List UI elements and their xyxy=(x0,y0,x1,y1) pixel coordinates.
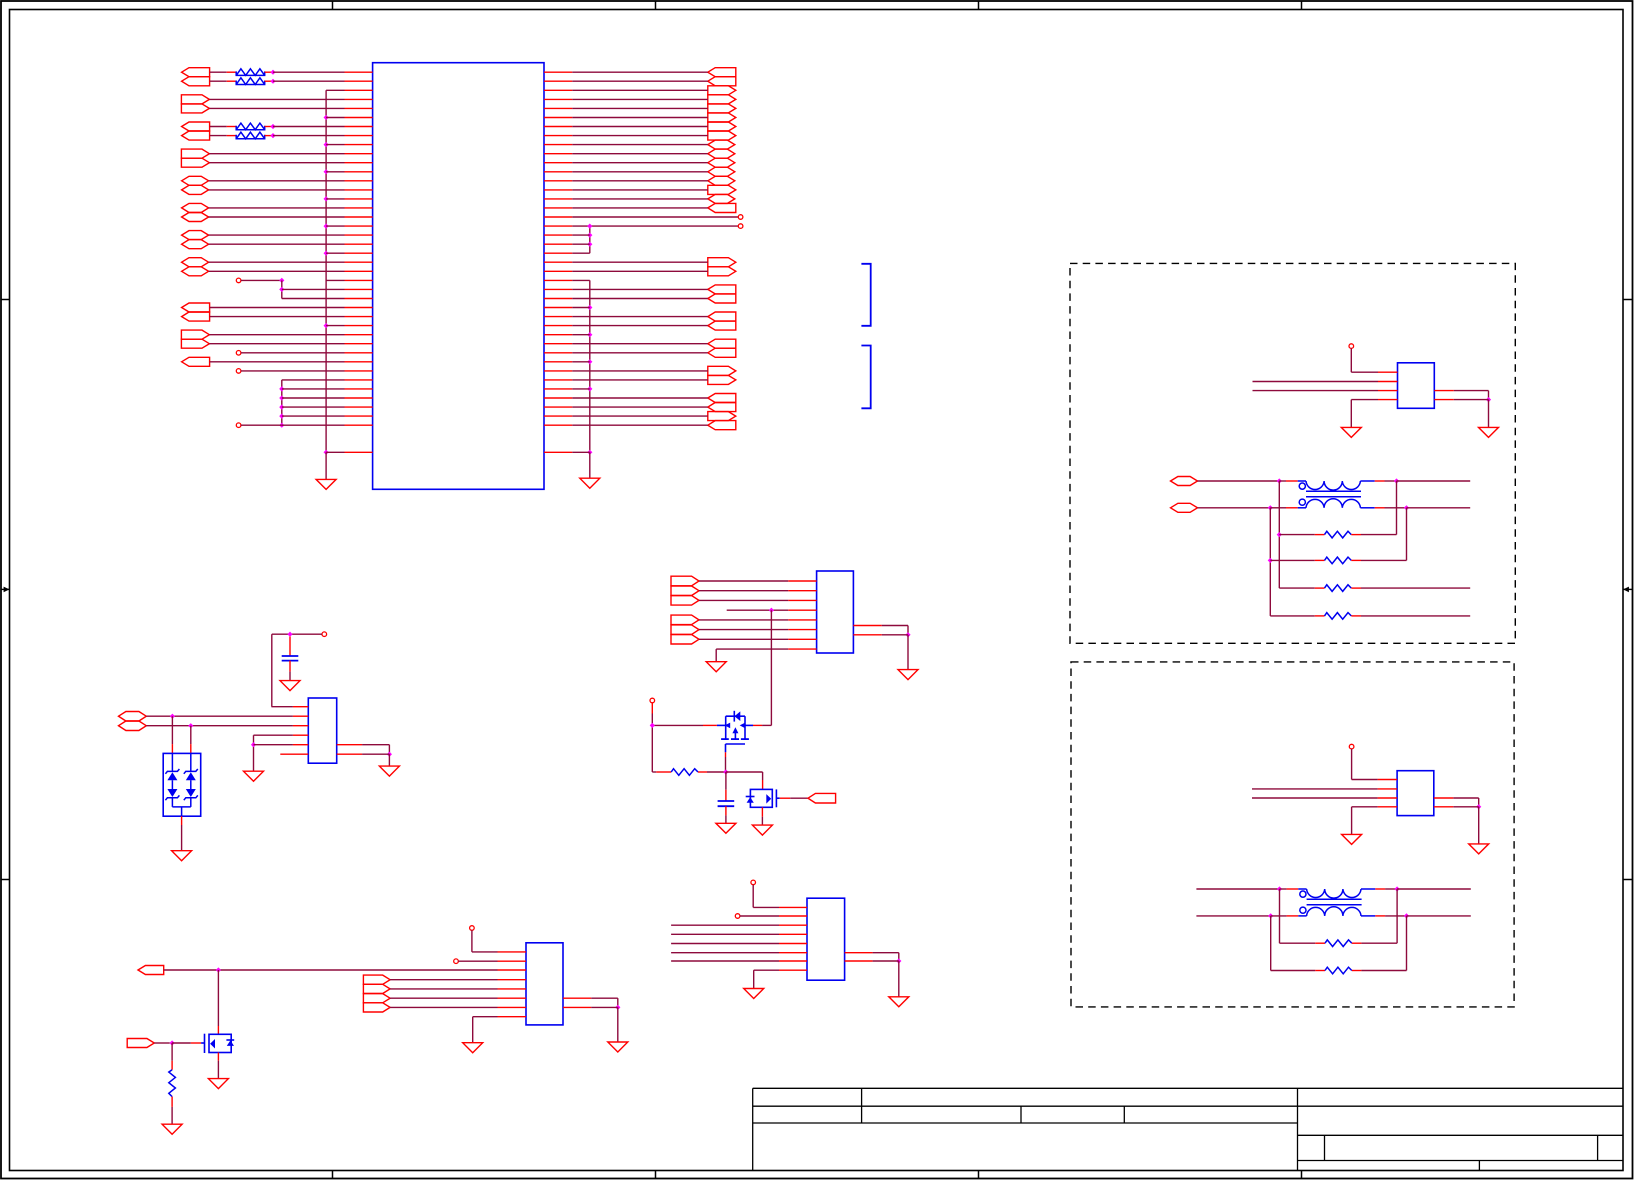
wire xyxy=(1270,559,1315,561)
U1 left pin row 38 xyxy=(345,415,373,417)
U5 left pin xyxy=(788,590,816,592)
wire xyxy=(725,806,727,815)
port U5 rows 1-3 xyxy=(671,596,699,606)
wire xyxy=(217,970,219,1026)
port pair left rows 29-30 (top) xyxy=(181,330,209,339)
port pair left rows 3-4 (top) xyxy=(181,95,209,104)
port pair left rows 18-19 (bottom) xyxy=(182,240,209,249)
wire xyxy=(209,216,345,218)
diode D1 xyxy=(165,769,179,780)
U1 left pin row 36 xyxy=(345,397,373,399)
wire xyxy=(589,452,591,478)
IC U5 xyxy=(817,571,854,653)
U2 left pin xyxy=(1378,399,1398,401)
wire xyxy=(725,752,727,757)
junction xyxy=(270,79,275,84)
wire xyxy=(282,406,345,408)
U7 right pin xyxy=(845,960,873,962)
wire xyxy=(253,735,255,771)
U1 right pin row 34 xyxy=(544,379,572,381)
wire xyxy=(1361,534,1397,536)
wire xyxy=(617,998,619,1007)
T1 core xyxy=(1306,491,1361,497)
wire xyxy=(273,80,345,82)
wire xyxy=(572,252,590,254)
wire xyxy=(282,379,345,381)
wire xyxy=(209,153,344,155)
wire xyxy=(273,135,345,137)
wire xyxy=(265,135,273,137)
wire xyxy=(1385,480,1397,482)
wire xyxy=(1270,916,1272,971)
bus bracket 2 xyxy=(861,346,870,409)
left bus wire xyxy=(325,90,327,452)
U3 left pin xyxy=(1378,797,1398,799)
wire xyxy=(1360,507,1374,509)
U1 left pin row 27 xyxy=(345,316,373,318)
junction xyxy=(324,169,329,174)
wire xyxy=(1352,942,1362,944)
ground U2 left xyxy=(1341,427,1361,437)
junction xyxy=(1277,478,1282,483)
resistor R5 xyxy=(1325,531,1352,538)
U6 left pin xyxy=(498,979,527,981)
U1 right pin row 1 xyxy=(544,80,572,82)
U1 left pin row 11 xyxy=(345,171,373,173)
wire xyxy=(572,80,708,82)
U1 right pin row 5 xyxy=(544,117,572,119)
U1 left pin row 8 xyxy=(345,144,373,146)
U4 left pin xyxy=(293,725,308,727)
U1 right pin row 16 xyxy=(544,216,572,218)
ground U6 left xyxy=(463,1043,483,1053)
wire xyxy=(1361,888,1375,890)
wire xyxy=(273,71,345,73)
wire xyxy=(1253,381,1379,383)
wire xyxy=(671,952,779,954)
U1 right pin row 33 xyxy=(544,370,572,372)
IC U7 xyxy=(807,898,845,980)
wire xyxy=(282,424,345,426)
U1 left pin row 23 xyxy=(345,279,373,281)
junction xyxy=(279,423,284,428)
right bus wire 2 xyxy=(589,280,591,452)
wire xyxy=(707,771,726,773)
wire xyxy=(271,634,273,707)
junction xyxy=(769,608,774,613)
U7 left pin xyxy=(779,933,807,935)
port right row 14 xyxy=(708,194,735,203)
wire xyxy=(282,288,345,290)
wire xyxy=(699,590,788,592)
wire xyxy=(390,979,497,981)
wire xyxy=(725,757,727,772)
wire xyxy=(591,1006,618,1008)
wire xyxy=(164,969,498,971)
wire xyxy=(1351,534,1361,536)
wire xyxy=(1298,507,1306,509)
resistor R4 xyxy=(236,132,265,139)
U1 right pin row 21 xyxy=(544,261,572,263)
wire xyxy=(209,189,345,191)
port right row 39 xyxy=(708,421,736,430)
port Q2 gate xyxy=(808,793,836,803)
U1 left pin row 24 xyxy=(345,288,373,290)
wire xyxy=(1286,480,1298,482)
wire xyxy=(762,772,764,780)
wire xyxy=(882,634,908,636)
no-connect U7 b xyxy=(735,914,740,919)
ground U5 right xyxy=(898,670,918,680)
wire xyxy=(209,162,344,164)
MOSFET Q2 xyxy=(746,789,780,807)
wire xyxy=(1298,480,1306,482)
wire xyxy=(209,343,344,345)
wire xyxy=(1406,916,1408,971)
capacitor C2 xyxy=(718,801,735,806)
junction xyxy=(324,323,329,328)
wire xyxy=(1280,888,1287,890)
U1 left pin row 9 xyxy=(345,153,373,155)
wire xyxy=(209,207,345,209)
wire xyxy=(241,424,282,426)
wire xyxy=(652,771,656,773)
wire xyxy=(326,279,344,281)
U1 right pin row 10 xyxy=(544,162,572,164)
wire xyxy=(671,960,779,962)
wire xyxy=(1478,798,1480,807)
no-connect Q1 xyxy=(650,698,655,703)
wire xyxy=(171,744,173,753)
port G2 xyxy=(127,1039,154,1048)
title block xyxy=(753,1088,1623,1170)
wire xyxy=(1351,559,1361,561)
no-connect U2 xyxy=(1349,344,1354,349)
wire xyxy=(770,610,772,725)
wire xyxy=(1478,807,1480,844)
ground U3 left xyxy=(1342,834,1362,844)
U1 left pin row 4 xyxy=(345,107,373,109)
wire xyxy=(1488,391,1490,400)
port pair right rows 10-11 (top) xyxy=(708,158,735,167)
wire xyxy=(572,307,590,309)
U1 left pin row 34 xyxy=(345,379,373,381)
wire xyxy=(1198,507,1271,509)
U7 right pin xyxy=(845,952,873,954)
U7 left pin xyxy=(779,915,807,917)
wire xyxy=(171,1043,173,1061)
junction xyxy=(279,278,284,283)
wire xyxy=(1375,888,1385,890)
port pair left rows 15-16 (top) xyxy=(182,203,209,212)
IC U2 xyxy=(1398,363,1435,409)
junction xyxy=(324,196,329,201)
wire xyxy=(172,1042,191,1044)
wire xyxy=(1351,615,1361,617)
junction xyxy=(270,133,275,138)
border centre arrow right xyxy=(1623,587,1633,593)
wire xyxy=(725,772,727,790)
junction xyxy=(1277,886,1282,891)
U6 left pin xyxy=(498,969,527,971)
border zone tick top xyxy=(1301,1,1303,10)
junction xyxy=(324,251,329,256)
ground under U1 left xyxy=(316,479,336,489)
wire xyxy=(572,352,708,354)
U1 right pin row 26 xyxy=(544,307,572,309)
junction xyxy=(251,742,256,747)
border zone tick right xyxy=(1623,879,1633,881)
wire xyxy=(217,1026,219,1034)
port pair right rows 33-34 (top) xyxy=(708,366,736,375)
U1 right pin row 29 xyxy=(544,334,572,336)
U1 right pin row 23 xyxy=(544,279,572,281)
border zone tick bottom xyxy=(1301,1171,1303,1179)
wire xyxy=(572,180,708,182)
main IC U1 xyxy=(373,63,544,490)
port pair right rows 10-11 (bottom) xyxy=(708,167,735,176)
wire xyxy=(1252,797,1378,799)
MOSFET Q1 xyxy=(717,711,753,753)
ground U2 right xyxy=(1479,427,1499,437)
U1 right pin row 9 xyxy=(544,153,572,155)
U1 left pin row 18 xyxy=(345,234,373,236)
port pair right rows 24-25 (top) xyxy=(708,285,736,294)
wire xyxy=(210,80,227,82)
U1 left pin row 22 xyxy=(345,270,373,272)
wire xyxy=(390,997,497,999)
wire xyxy=(699,580,788,582)
wire xyxy=(591,997,618,999)
wire xyxy=(1385,915,1406,917)
ground Q2 xyxy=(752,825,772,835)
ground C2 xyxy=(716,823,736,833)
no-connect xyxy=(236,351,241,356)
resistor R11 xyxy=(169,1070,176,1097)
wire xyxy=(572,288,708,290)
junction xyxy=(1268,558,1273,563)
wire xyxy=(1287,915,1299,917)
U5 left pin xyxy=(788,580,816,582)
U1 right pin row 4 xyxy=(544,107,572,109)
port pair left rows 21-22 (top) xyxy=(182,258,209,267)
wire xyxy=(210,307,345,309)
wire xyxy=(572,343,708,345)
IC U3 xyxy=(1397,771,1434,816)
wire xyxy=(254,744,293,746)
junction xyxy=(216,967,221,972)
wire xyxy=(1375,480,1385,482)
junction xyxy=(723,769,728,774)
T2 phase dot lower xyxy=(1300,907,1306,913)
wire xyxy=(190,744,192,753)
wire xyxy=(1253,390,1379,392)
wire xyxy=(281,280,283,298)
ground bridge xyxy=(172,851,192,861)
wire xyxy=(146,715,293,717)
wire xyxy=(1286,507,1298,509)
U2 left pin xyxy=(1378,381,1398,383)
U1 left pin row 35 xyxy=(345,388,373,390)
port T1 lower xyxy=(1171,503,1198,512)
junction xyxy=(587,224,592,229)
U7 left pin xyxy=(779,952,807,954)
wire xyxy=(572,216,738,218)
wire xyxy=(761,807,763,816)
wire xyxy=(209,270,345,272)
U1 right pin row 25 xyxy=(544,298,572,300)
wire xyxy=(762,724,771,726)
wire xyxy=(898,953,900,961)
wire xyxy=(572,406,708,408)
wire xyxy=(761,817,763,825)
port pair right rows 6-7 (top) xyxy=(708,122,736,131)
port pair right rows 0-1 (bottom) xyxy=(708,77,736,86)
wire xyxy=(171,1097,173,1107)
U2 left pin xyxy=(1378,371,1398,373)
wire xyxy=(572,379,708,381)
U1 left pin row 10 xyxy=(345,162,373,164)
wire xyxy=(289,637,291,657)
U4 right pin xyxy=(337,753,362,755)
U6 left pin xyxy=(498,997,527,999)
wire xyxy=(1270,615,1315,617)
wire xyxy=(699,638,788,640)
port pair left rows 6-7 (top) xyxy=(182,122,210,131)
wire xyxy=(572,144,708,146)
wire xyxy=(790,797,808,799)
diode D3 xyxy=(165,789,179,800)
diode D2 xyxy=(184,769,198,780)
border zone tick bottom xyxy=(655,1171,657,1179)
junction xyxy=(1277,532,1282,537)
wire xyxy=(572,126,708,128)
wire xyxy=(326,325,344,327)
U2 right pin xyxy=(1434,390,1454,392)
wire xyxy=(217,1061,219,1079)
wire xyxy=(1385,888,1397,890)
wire xyxy=(752,885,754,908)
U4 left pin xyxy=(293,744,308,746)
wire xyxy=(572,135,708,137)
U1 right pin row 15 xyxy=(544,207,572,209)
junction xyxy=(324,450,329,455)
wire xyxy=(1315,559,1325,561)
no-connect U3 xyxy=(1349,744,1354,749)
U7 left pin xyxy=(779,969,807,971)
wire xyxy=(1352,806,1378,808)
U6 right pin xyxy=(563,997,591,999)
wire xyxy=(572,234,590,236)
wire xyxy=(1351,587,1361,589)
wire xyxy=(740,915,779,917)
wire xyxy=(572,117,708,119)
wire xyxy=(572,451,590,453)
U3 right pin xyxy=(1434,797,1454,799)
port pair right rows 8-9 (top) xyxy=(708,140,735,149)
wire xyxy=(726,771,763,773)
wire xyxy=(326,89,344,91)
wire xyxy=(388,754,390,766)
port pair right rows 2-3 (top) xyxy=(708,86,736,95)
wire xyxy=(1350,348,1352,372)
wire xyxy=(472,1017,474,1043)
wire xyxy=(210,135,227,137)
wire xyxy=(326,171,344,173)
no-connect xyxy=(236,278,241,283)
U6 left pin xyxy=(498,960,527,962)
transformer T1 secondary coil xyxy=(1306,499,1360,508)
wire xyxy=(753,906,779,908)
wire xyxy=(272,633,322,635)
port G1 xyxy=(138,966,164,975)
U1 right pin row 6 xyxy=(544,126,572,128)
port right row 38 xyxy=(708,412,736,421)
wire xyxy=(390,1006,497,1008)
port pair right rows 21-22 (top) xyxy=(708,258,736,267)
wire xyxy=(907,635,909,670)
wire xyxy=(1375,507,1385,509)
U1 left pin row 31 xyxy=(345,352,373,354)
wire xyxy=(390,988,497,990)
port right row 12 xyxy=(708,176,735,185)
wire xyxy=(209,243,345,245)
wire xyxy=(1351,749,1353,780)
U1 right pin row 8 xyxy=(544,144,572,146)
junction xyxy=(324,224,329,229)
junction xyxy=(270,124,275,129)
U1 right pin row 7 xyxy=(544,135,572,137)
port pair right rows 8-9 (bottom) xyxy=(708,149,735,158)
U6 left pin xyxy=(498,1016,527,1018)
wire xyxy=(241,370,345,372)
bridge internal wiring xyxy=(172,753,190,816)
port pair right rows 0-1 (top) xyxy=(708,68,736,77)
wire xyxy=(326,225,344,227)
U1 right pin row 31 xyxy=(544,352,572,354)
wire xyxy=(265,80,273,82)
border zone tick top xyxy=(655,1,657,10)
wire xyxy=(171,1107,173,1124)
U1 left pin row 42 xyxy=(345,451,373,453)
U3 left pin xyxy=(1378,779,1398,781)
port pair left rows 3-4 (bottom) xyxy=(181,104,209,113)
U7 left pin xyxy=(779,960,807,962)
wire xyxy=(1385,507,1407,509)
U1 left pin row 15 xyxy=(345,207,373,209)
U1 left pin row 3 xyxy=(345,98,373,100)
wire xyxy=(716,648,788,650)
wire xyxy=(473,1016,498,1018)
wire xyxy=(1454,399,1489,401)
capacitor C1 xyxy=(282,656,299,661)
wire xyxy=(1315,587,1325,589)
wire xyxy=(1196,915,1270,917)
U1 left pin row 19 xyxy=(345,243,373,245)
junction xyxy=(287,632,292,637)
junction xyxy=(279,414,284,419)
junction xyxy=(587,242,592,247)
wire xyxy=(671,943,779,945)
wire xyxy=(388,745,390,755)
wire xyxy=(209,107,344,109)
U1 right pin row 2 xyxy=(544,89,572,91)
U1 left pin row 37 xyxy=(345,406,373,408)
U1 right pin row 22 xyxy=(544,270,572,272)
wire xyxy=(326,144,344,146)
wire xyxy=(1315,970,1325,972)
ground under U1 right xyxy=(580,478,600,488)
